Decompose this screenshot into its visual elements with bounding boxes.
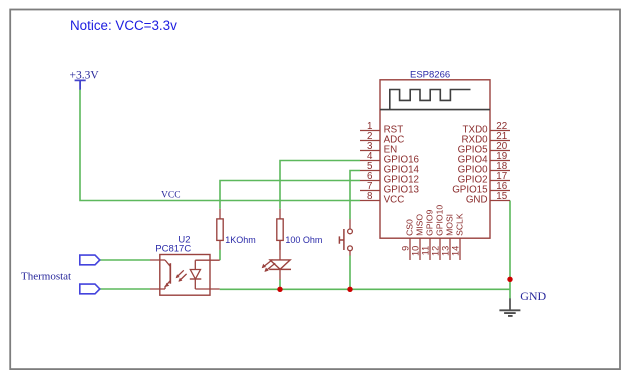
svg-text:MISO: MISO xyxy=(415,214,425,236)
svg-text:GPIO10: GPIO10 xyxy=(435,205,445,236)
svg-text:14: 14 xyxy=(451,246,461,256)
svg-text:9: 9 xyxy=(401,246,411,251)
svg-text:+3.3V: +3.3V xyxy=(70,69,100,81)
svg-text:Thermostat: Thermostat xyxy=(21,271,71,283)
svg-text:PC817C: PC817C xyxy=(155,244,191,255)
svg-text:10: 10 xyxy=(411,246,421,256)
svg-text:MOSI: MOSI xyxy=(445,214,455,236)
svg-text:8: 8 xyxy=(367,191,373,202)
svg-text:VCC: VCC xyxy=(161,190,181,200)
svg-text:1KOhm: 1KOhm xyxy=(225,235,256,245)
svg-text:12: 12 xyxy=(431,246,441,256)
svg-text:ESP8266: ESP8266 xyxy=(410,70,450,81)
svg-text:VCC: VCC xyxy=(384,195,405,206)
svg-text:GPIO9: GPIO9 xyxy=(425,209,435,235)
svg-text:100 Ohm: 100 Ohm xyxy=(285,235,322,245)
svg-text:SCLK: SCLK xyxy=(455,213,465,236)
svg-text:GND: GND xyxy=(520,289,546,303)
svg-text:11: 11 xyxy=(421,246,431,256)
svg-text:Notice: VCC=3.3v: Notice: VCC=3.3v xyxy=(70,18,177,33)
svg-text:CS0: CS0 xyxy=(405,219,415,236)
svg-text:15: 15 xyxy=(496,191,507,202)
svg-text:GND: GND xyxy=(466,195,488,206)
svg-text:13: 13 xyxy=(441,246,451,256)
